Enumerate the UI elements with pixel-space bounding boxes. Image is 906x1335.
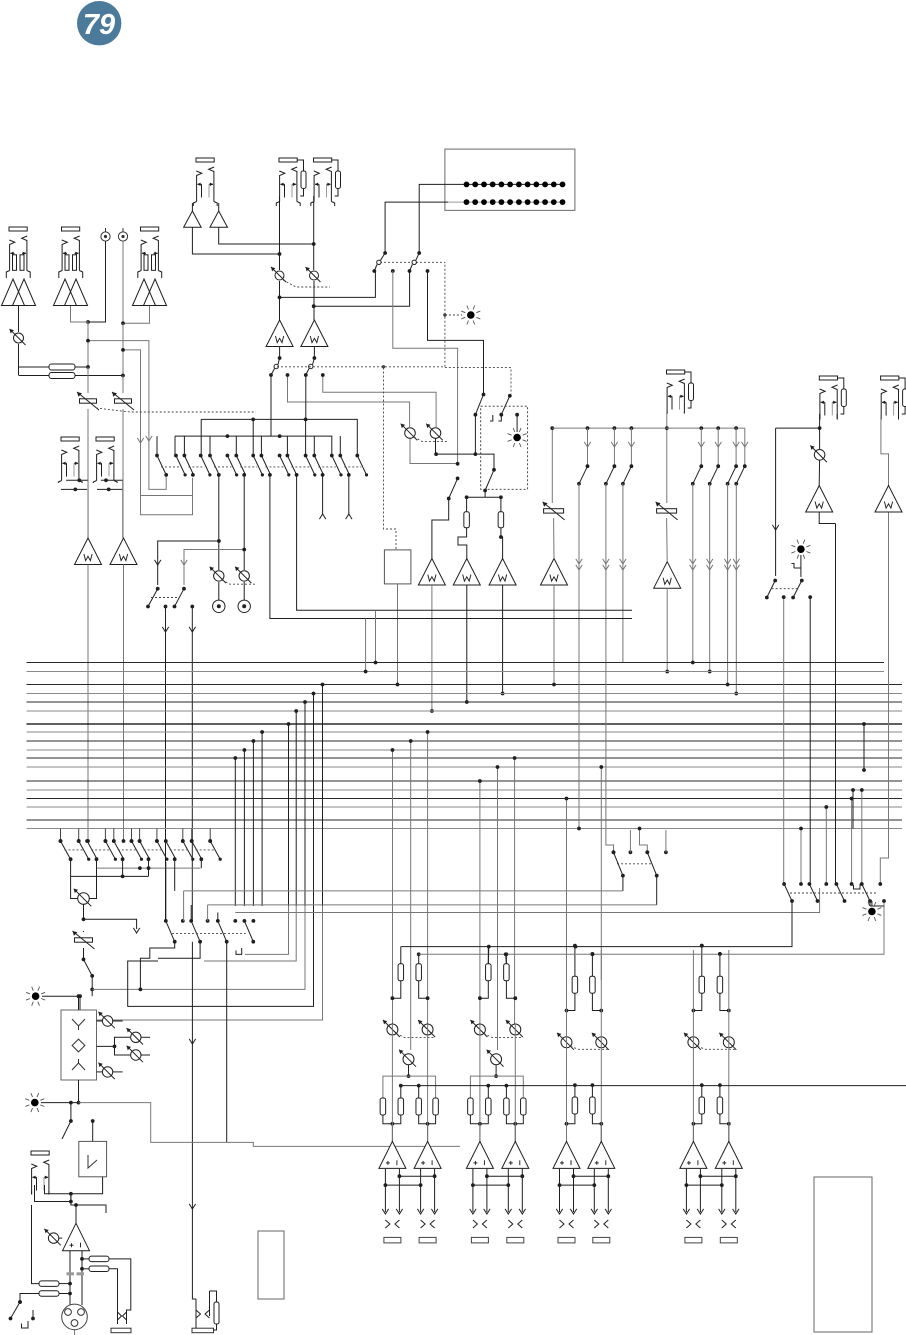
strip1 res R	[416, 964, 422, 981]
strip2 bracket	[470, 1076, 523, 1098]
jack 2tr L	[276, 158, 306, 206]
LED power	[26, 987, 45, 1006]
strip2 wireresL	[487, 947, 489, 964]
bus end v2	[374, 610, 378, 664]
resistor RH1	[89, 1256, 109, 1262]
wire SL to meter	[280, 272, 376, 298]
tap return b	[204, 906, 296, 961]
wire jack to B2	[218, 203, 220, 211]
wire to pot1	[288, 375, 410, 428]
wire mon sw a	[783, 597, 785, 884]
bottom hook	[22, 1321, 29, 1328]
wire meter R	[383, 202, 448, 255]
strip3 out R	[594, 1169, 608, 1212]
wire led rec	[871, 901, 873, 906]
wire T1 up	[550, 426, 554, 503]
rec pot L	[210, 567, 226, 583]
row2 sw1	[166, 921, 177, 944]
strip3 hookR	[592, 993, 603, 1012]
bus tap 7	[303, 700, 307, 906]
jack input 1	[6, 227, 30, 278]
out pot 3	[97, 1045, 151, 1063]
wire ch R down	[313, 196, 315, 270]
strip3 res L	[572, 976, 578, 993]
switch box B pole	[499, 394, 511, 417]
wire mon sw b	[809, 597, 811, 884]
phones level	[44, 1229, 62, 1245]
matrix switch pair 8	[338, 454, 368, 477]
wire box A out	[474, 415, 478, 456]
wire RH34 r	[59, 1282, 72, 1296]
switch SL sel	[269, 358, 280, 377]
row2 out1	[139, 942, 175, 992]
bus end r1	[851, 788, 855, 828]
wire line A down2	[87, 409, 89, 538]
dotted mon link	[772, 588, 798, 590]
sub switch 2	[173, 589, 195, 609]
meter contact 2R	[426, 269, 430, 273]
bus tap 5	[287, 722, 291, 906]
wire preamp2 out	[71, 306, 90, 369]
mon hook	[792, 555, 801, 577]
resistor R3	[464, 512, 470, 528]
mon pot 1	[401, 424, 418, 441]
wire h1 left	[200, 419, 202, 455]
wire G1 pan feed	[409, 739, 413, 1050]
wire A2 out	[122, 565, 126, 843]
rec pot R	[235, 567, 251, 583]
dotted rec pots	[222, 580, 256, 584]
strip2 res L	[486, 964, 492, 981]
dotted mon pots	[414, 437, 448, 441]
strip4 hookR	[720, 993, 731, 1012]
row2 sw right1	[612, 850, 625, 891]
strip1 res2 c	[416, 1098, 422, 1115]
wire ch L down	[279, 196, 281, 270]
switch pfl	[447, 477, 460, 501]
strip4 link1	[699, 1174, 738, 1178]
strip4 vR	[728, 950, 730, 1141]
strip3 jackcontacts	[560, 1220, 609, 1228]
RCA connector R	[118, 228, 127, 241]
dotted sub link	[151, 597, 178, 599]
wire R4 amp	[499, 528, 503, 559]
pad switch S2	[112, 392, 134, 410]
strip2 link1	[485, 1174, 524, 1178]
tape out L	[155, 539, 221, 585]
strip2 potL	[470, 1020, 487, 1037]
jack input 2	[59, 227, 83, 278]
strip2 vR	[514, 1024, 516, 1141]
LED meter display	[445, 149, 575, 210]
wire amp outs	[70, 1251, 82, 1312]
row2 feed 165	[165, 862, 167, 921]
tap return e	[96, 906, 323, 1020]
wire RCA R down2	[121, 323, 125, 377]
bank stub 1	[799, 827, 803, 884]
return stubs	[71, 859, 202, 891]
aux drop 7	[733, 428, 748, 695]
talkback box	[384, 550, 411, 584]
bus tap 6	[294, 709, 298, 906]
strip3 res2 feeds	[573, 1083, 594, 1097]
wire tapeR join	[97, 478, 123, 491]
matrix out6	[297, 475, 632, 610]
meter contact 2L	[391, 269, 395, 273]
strip2 pan out	[494, 1065, 498, 1078]
tap return c	[92, 906, 305, 989]
strip3 link1	[572, 1174, 611, 1178]
strip4 arrows	[683, 1209, 739, 1214]
wire tapeL drop	[87, 480, 89, 538]
strip3 vL	[566, 950, 568, 1141]
wire line B down	[122, 376, 124, 394]
wire RH out1	[109, 1259, 131, 1300]
wire sw to amp1	[432, 499, 449, 559]
pad switch S1	[77, 392, 99, 410]
wire monL branch	[776, 427, 820, 429]
sum amp SR	[301, 320, 328, 347]
trimmer T2	[656, 502, 678, 520]
bank stub 3	[850, 797, 854, 884]
wire pot1 route	[410, 439, 460, 466]
sum amp M2	[453, 559, 480, 586]
bus tap 1	[233, 756, 237, 906]
strip3 potR	[592, 1033, 609, 1050]
wire M1 out	[430, 585, 434, 713]
group bus grey	[419, 911, 884, 956]
wire line B down2	[122, 409, 124, 538]
strip2 res R	[504, 964, 510, 981]
strip2 res2 b	[486, 1098, 492, 1115]
wire SL dn	[270, 375, 272, 436]
wire box top	[77, 994, 81, 1010]
strip3 potL	[557, 1033, 574, 1050]
wire LED2	[41, 1102, 79, 1104]
rb v2	[870, 899, 886, 911]
wire bottom misc	[192, 1285, 209, 1299]
aux drop 1	[576, 428, 591, 663]
phones jack L	[111, 1300, 131, 1333]
assign bus h1	[201, 418, 358, 422]
strip3 jack L	[558, 1237, 575, 1243]
wire monL out	[819, 512, 835, 524]
strip3 wireresL	[573, 944, 577, 977]
wire M3 out	[501, 585, 505, 695]
strip2 amp L	[466, 1141, 493, 1168]
page number badge 79	[77, 1, 121, 45]
wire mon left	[772, 428, 778, 576]
wire pfl h	[465, 495, 503, 499]
rb hook	[854, 884, 861, 889]
phones switch	[82, 958, 95, 978]
strip2 jackcontacts	[473, 1220, 522, 1228]
wire B2 out	[219, 227, 316, 246]
strip1 wireresR	[417, 952, 421, 963]
matrix switch pair 5	[260, 454, 291, 477]
strip2 res2 d	[521, 1098, 527, 1115]
wire R3 top	[466, 497, 468, 512]
wire G2 pan feed	[496, 765, 500, 1050]
wire amp in	[74, 1203, 78, 1223]
strip1 vL	[391, 1024, 393, 1141]
wire potL down	[278, 281, 282, 320]
strip1 arrows	[382, 1209, 438, 1214]
strip2 res2 c	[504, 1098, 510, 1115]
strip4 hookL	[692, 993, 702, 1012]
row2 pole dots	[164, 919, 255, 923]
strip2 arrows	[470, 1209, 526, 1214]
row2 sw2	[191, 921, 202, 944]
strip1 potL	[383, 1020, 400, 1037]
sub drop 1	[156, 587, 160, 591]
row2 out3	[226, 942, 228, 1143]
matrix out5	[270, 475, 632, 619]
wire mon out L	[835, 524, 837, 885]
wire B1 out	[192, 227, 281, 256]
switch SR sel	[304, 358, 315, 377]
strip2 amp R	[502, 1141, 529, 1168]
stub g2a	[487, 947, 490, 964]
strip2 hookL	[478, 981, 488, 1000]
wire relay out	[71, 1194, 106, 1213]
aux cross 3	[638, 827, 650, 855]
wire to pot2	[321, 373, 436, 428]
wire tape feed A	[86, 339, 166, 490]
strip3 amp R	[588, 1141, 615, 1168]
switch box C	[483, 468, 496, 493]
wire RH feed	[80, 1257, 89, 1271]
buffer amp B1	[184, 211, 202, 227]
strip2 merge	[470, 1115, 523, 1141]
strip3 wireresR	[591, 952, 595, 976]
wire meter tapL	[393, 271, 458, 464]
return bus black	[71, 875, 149, 879]
wire trim dn	[83, 931, 85, 959]
wire foot join	[35, 1177, 103, 1204]
wire h2 left	[174, 436, 176, 455]
headphone bus	[402, 1085, 906, 1087]
wire rec R	[243, 475, 245, 570]
phones pot	[74, 889, 92, 907]
cap marks	[67, 1272, 85, 1275]
rb sw3	[836, 884, 846, 903]
row2 grey in3	[235, 888, 819, 913]
strip2 vL	[479, 1024, 481, 1141]
dotted box B feed	[445, 368, 511, 394]
matrix out8	[346, 475, 352, 519]
row2 hook	[236, 948, 242, 954]
strip1 amp L	[379, 1141, 406, 1168]
sum amp M1	[418, 559, 445, 586]
sum amp M3	[489, 559, 516, 586]
return switch pair 4	[138, 839, 169, 861]
strip4 merge	[692, 1114, 731, 1141]
mic preamp U2	[54, 279, 88, 306]
wire phones br	[84, 919, 140, 933]
strip3 link2	[558, 1183, 597, 1187]
dotted row2	[172, 933, 246, 935]
aux send bus h	[552, 426, 745, 430]
mon switch b	[791, 579, 804, 600]
LED record	[862, 902, 881, 921]
wire R4 top	[500, 497, 502, 512]
dashed control box	[481, 406, 528, 489]
footsw jack	[192, 1299, 214, 1333]
dotted monitor bus	[277, 365, 445, 368]
jack aux send	[667, 370, 694, 414]
strip2 out R	[508, 1169, 522, 1212]
strip4 jackcontacts	[686, 1220, 735, 1228]
strip1 link1	[398, 1174, 437, 1178]
wire jack to B1	[191, 203, 193, 211]
strip4 vL	[692, 950, 694, 1141]
matrix switch pair 6	[286, 454, 317, 477]
strip2 dotted	[484, 1034, 523, 1038]
strip4 out R	[722, 1169, 736, 1212]
wire RCA L down	[86, 241, 105, 324]
rb sw4	[862, 884, 872, 903]
strip3 hookL	[565, 993, 575, 1012]
aux drop 6	[724, 428, 739, 686]
strip2 jack L	[471, 1237, 488, 1243]
strip3 out L	[560, 1169, 574, 1212]
wire tapeR drop	[122, 480, 124, 538]
wire RH3 l	[32, 1205, 40, 1284]
strip4 res2 feeds	[700, 1083, 722, 1097]
phones amp	[63, 1223, 90, 1251]
dotted meter riser	[444, 262, 446, 367]
jack foot	[31, 1151, 49, 1195]
wire phones R	[89, 868, 96, 898]
jack mon R	[881, 376, 906, 420]
resistor R4	[498, 512, 504, 528]
dotted row2r	[617, 863, 651, 865]
resistor R2	[49, 373, 75, 379]
bank stub 4	[860, 788, 864, 884]
sum amp SL	[266, 320, 293, 347]
wire SR out	[313, 347, 317, 360]
row2 sw3	[218, 921, 229, 944]
strip2 res2 feeds	[486, 1084, 508, 1098]
matrix pole stubs	[157, 419, 357, 455]
wire tb out	[396, 584, 400, 686]
sum amp M5	[654, 562, 681, 589]
strip3 vR	[600, 950, 602, 1141]
strip1 dotted	[396, 1034, 435, 1038]
aux drop 5	[707, 428, 722, 673]
wire A1 out	[86, 565, 90, 843]
wire box A pole	[483, 392, 485, 395]
resistor RH4	[39, 1291, 59, 1297]
bottom switch	[9, 1300, 35, 1320]
wire phones route	[79, 1103, 461, 1147]
strip3 res2 c	[590, 1097, 596, 1114]
strip1 hookR	[419, 981, 430, 1000]
wire T1 dn	[553, 518, 555, 559]
group bus black	[401, 911, 792, 948]
aux drop 2	[603, 428, 618, 663]
strip1 vR	[427, 1024, 429, 1141]
sub drop 2	[182, 587, 186, 591]
wire RCA R down	[122, 241, 124, 341]
tap return a	[245, 906, 289, 954]
wire box down	[77, 1080, 81, 1105]
row2 sw right2	[645, 850, 658, 905]
wire R3 amp	[458, 528, 467, 559]
bus tap 9	[321, 683, 325, 906]
wire G2R feed	[513, 756, 517, 1024]
strip4 potL	[684, 1033, 701, 1050]
jack input 3	[138, 227, 162, 278]
mon amp L	[806, 486, 833, 513]
mic preamp U1	[2, 279, 36, 306]
return switch pair 3	[112, 839, 143, 861]
wire T2 dn	[666, 518, 669, 562]
strip4 out L	[686, 1169, 700, 1212]
dotted LED link	[443, 313, 462, 316]
wire relay top	[91, 1119, 95, 1141]
contact hook b	[499, 415, 502, 421]
bus end r2	[862, 722, 866, 772]
row2 out2	[158, 942, 200, 959]
row2 grey in2	[208, 905, 657, 921]
strip3 res R	[590, 976, 596, 993]
mon contact a2	[782, 595, 786, 599]
LED solo	[508, 413, 527, 447]
strip1 jackcontacts	[385, 1220, 434, 1228]
wire tape feed B	[121, 348, 192, 515]
wire SL out	[278, 347, 282, 360]
strip1 out R	[421, 1169, 435, 1212]
aux drop 4	[690, 428, 705, 664]
strip1 bracket	[383, 1076, 436, 1098]
bus tap 2	[243, 748, 247, 906]
jack mon L	[819, 376, 846, 420]
strip2 potR	[506, 1020, 523, 1037]
dotted rb	[790, 892, 876, 894]
wire tapeL join	[61, 478, 88, 491]
wire box C out	[484, 491, 486, 498]
LED peak	[461, 306, 480, 325]
buffer amp B2	[210, 211, 228, 227]
bus end v1	[364, 619, 368, 674]
bus tap 4	[260, 730, 264, 906]
phones line	[189, 942, 195, 1285]
assign bus h2	[175, 434, 332, 455]
strip3 arrows	[556, 1209, 611, 1214]
wire mon out R	[880, 512, 888, 884]
strip1 res2 d	[433, 1098, 439, 1115]
resistor RH2	[89, 1266, 109, 1272]
footsw jack b	[210, 1291, 220, 1330]
strip4 jack R	[720, 1237, 737, 1243]
out pot 4	[97, 1063, 123, 1079]
dotted meter row	[380, 261, 445, 263]
aux cross 1	[577, 663, 581, 830]
jack tape L	[58, 437, 82, 483]
wire monL amp	[818, 460, 820, 486]
wire monR down	[881, 414, 889, 486]
strip3 jack R	[593, 1237, 610, 1243]
rb sw1	[784, 884, 794, 903]
sum amp A2	[110, 538, 137, 565]
gain pot P1	[10, 329, 26, 345]
row2 sw4	[244, 921, 255, 944]
strip1 merge	[383, 1115, 436, 1141]
LED phantom	[25, 1093, 44, 1112]
mon amp R	[875, 486, 902, 513]
